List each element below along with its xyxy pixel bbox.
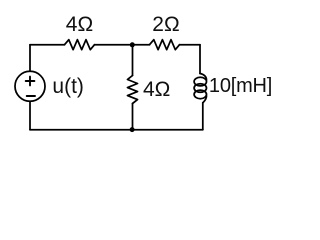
svg-text:2Ω: 2Ω xyxy=(152,13,179,36)
svg-text:4Ω: 4Ω xyxy=(143,78,170,101)
voltage source U1 circle xyxy=(15,71,45,101)
wire right vertical lower xyxy=(202,103,204,130)
wire top-left horizontal xyxy=(30,44,65,46)
resistor R1 4ohm top-left xyxy=(65,40,95,50)
wire top-middle horizontal xyxy=(95,44,150,46)
wire right vertical upper xyxy=(199,45,201,74)
wire top-right horizontal xyxy=(180,44,201,46)
voltage source plus sign xyxy=(26,77,35,86)
wire left vertical upper xyxy=(29,45,31,72)
wire middle vertical upper xyxy=(132,45,134,76)
svg-text:10[mH]: 10[mH] xyxy=(209,75,272,97)
svg-text:u(t): u(t) xyxy=(52,75,84,98)
svg-text:4Ω: 4Ω xyxy=(66,13,93,36)
resistor R2 2ohm top-right xyxy=(150,40,180,50)
node junction bottom xyxy=(130,127,135,132)
node junction top xyxy=(130,42,135,47)
inductor L1 10mH xyxy=(194,74,206,103)
wire left vertical lower xyxy=(29,101,31,129)
resistor R3 4ohm middle xyxy=(128,76,138,104)
wire bottom horizontal xyxy=(30,129,203,131)
wire middle vertical lower xyxy=(132,104,134,131)
voltage source minus sign xyxy=(27,95,35,97)
